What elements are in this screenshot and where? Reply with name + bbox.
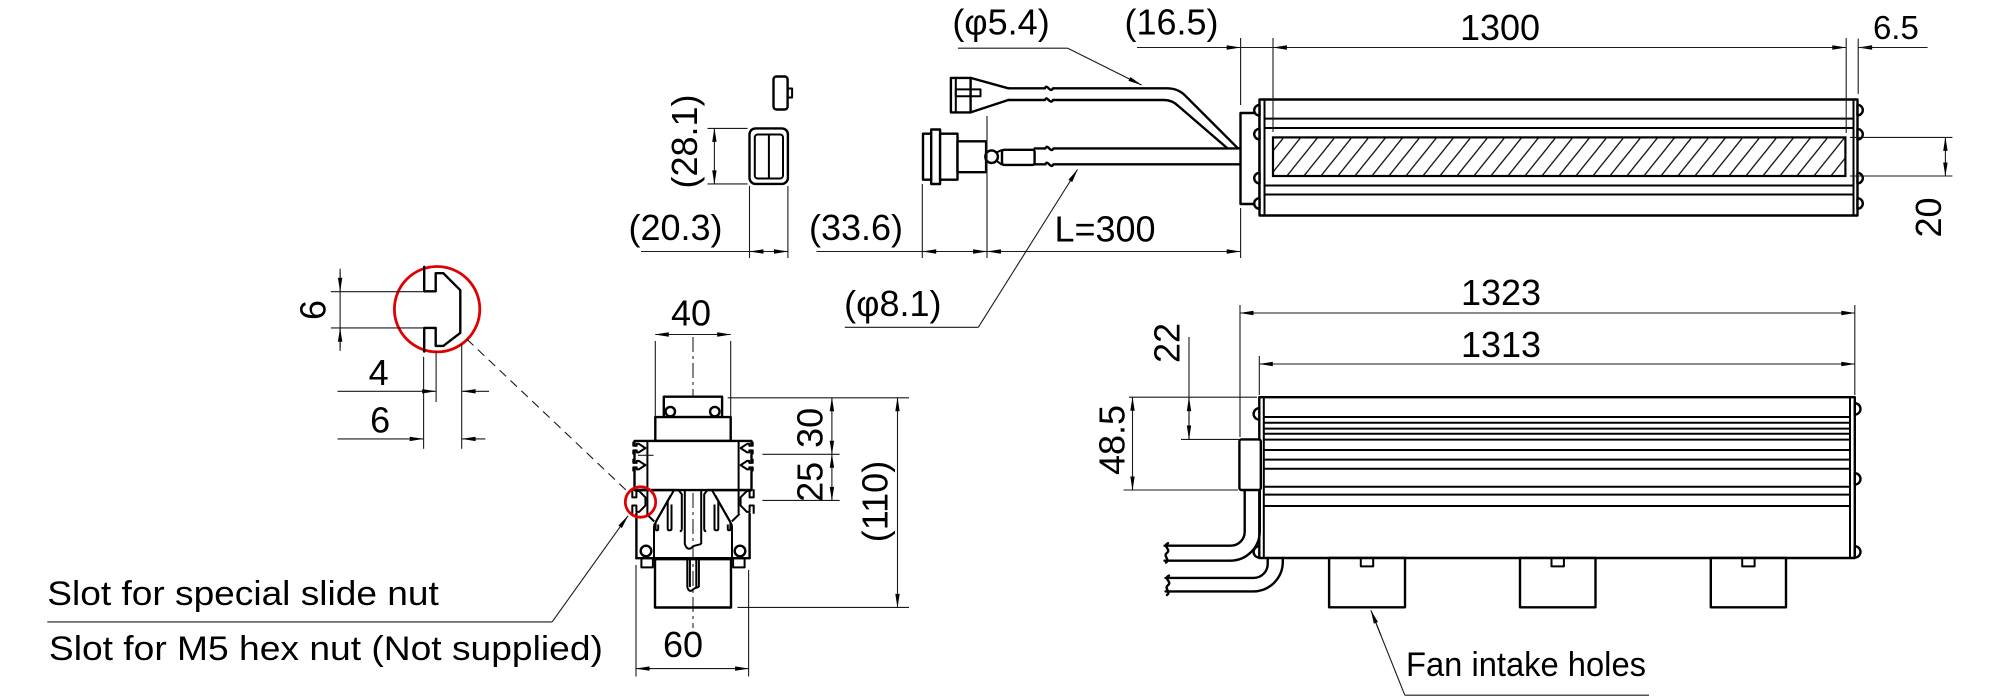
trunk bore left [684, 490, 686, 544]
LED emitting window (hatched) [1273, 137, 1845, 176]
svg-text:Slot for special slide nut: Slot for special slide nut [47, 575, 439, 613]
fin left outer [656, 523, 659, 531]
faston tongue [956, 89, 981, 96]
slot 2 right [741, 459, 753, 472]
bar internal line 1 [1265, 118, 1854, 120]
ext line x1273 [1272, 38, 1274, 132]
dim 28.1 ext top [708, 127, 748, 129]
flange wall left [635, 514, 637, 558]
block inner wall right [738, 441, 740, 514]
bar internal line 3 [1265, 185, 1854, 187]
bar internal line 4 [1265, 194, 1854, 196]
notch box1 [1361, 558, 1373, 566]
fan box 2 [1520, 558, 1596, 607]
top cap hole left [666, 407, 675, 416]
svg-text:(33.6): (33.6) [809, 207, 903, 248]
top cap rect [664, 397, 722, 417]
slot 3 right [741, 489, 754, 514]
upper cable bottom line [1008, 98, 1227, 148]
svg-text:6.5: 6.5 [1873, 9, 1919, 46]
duct stem wavy cap [687, 587, 699, 591]
hopper slope right outer [712, 491, 732, 526]
svg-text:40: 40 [671, 293, 711, 334]
dim 6 depth line [338, 438, 409, 440]
dim 22 ext bottom [1181, 438, 1239, 440]
svg-text:4: 4 [369, 352, 389, 393]
fan box 3 [1711, 558, 1786, 607]
svg-text:1300: 1300 [1460, 7, 1540, 48]
arrow 16.5 right [1222, 47, 1240, 49]
dim 25 ext [762, 499, 839, 501]
ext 1313 left [1258, 356, 1260, 395]
cable C1 outer [1165, 490, 1260, 561]
dim 60 line [636, 668, 749, 670]
svg-text:6: 6 [293, 300, 334, 320]
cone to ferrule [997, 150, 1002, 165]
ext right shared [1854, 305, 1856, 395]
dim 6.5 line [1859, 47, 1875, 49]
upper cable top line [1008, 87, 1240, 149]
fin right outer [728, 523, 731, 531]
dim 1313 line [1259, 363, 1855, 365]
notch box2 [1552, 558, 1564, 566]
svg-text:60: 60 [663, 624, 703, 665]
ext line x1846.2 [1845, 38, 1847, 133]
dim 30 ext [762, 453, 839, 455]
block bottom edge [635, 489, 752, 491]
cable C1 inner [1165, 490, 1245, 546]
connector mount block at bar left end [1241, 113, 1260, 204]
connector front divider [768, 135, 770, 179]
svg-text:(110): (110) [855, 461, 896, 542]
dim 6 mouth ext lines [331, 291, 424, 293]
bumps right edge [1855, 403, 1861, 557]
small tick line left [638, 454, 654, 456]
svg-text:(28.1): (28.1) [664, 94, 705, 188]
cable C1 end break [1166, 543, 1169, 562]
svg-text:22: 22 [1147, 323, 1188, 363]
slot 1 left [633, 442, 645, 455]
svg-text:30: 30 [790, 408, 831, 448]
dim 20 ext bottom [1850, 175, 1952, 177]
svg-text:1313: 1313 [1461, 324, 1541, 365]
flange chamfer right [732, 514, 740, 522]
duct stem lines [687, 559, 699, 587]
connector tip ball [985, 150, 998, 163]
slot 2 left [633, 459, 645, 472]
dim 110 line [897, 398, 899, 608]
circular connector barrel [958, 141, 987, 172]
connector front view outer [750, 128, 788, 184]
cable C2 end break [1167, 576, 1170, 595]
svg-text:Slot for M5 hex nut (Not suppl: Slot for M5 hex nut (Not supplied) [49, 630, 603, 668]
svg-text:(φ5.4): (φ5.4) [952, 2, 1049, 43]
dim 1323 line [1240, 312, 1855, 314]
ext line x1240.6 upper [1240, 38, 1242, 105]
arrow 1300 left [1273, 47, 1291, 49]
bar left end cap line [1264, 100, 1266, 216]
leader diagonal to red circle [552, 516, 628, 622]
dim line y251.5 shared [817, 251, 1241, 253]
svg-text:20: 20 [1908, 197, 1949, 237]
notch box3 [1742, 558, 1754, 566]
faston inner line [955, 78, 957, 113]
dim 25 line [831, 454, 833, 500]
wire ferrule [1002, 150, 1035, 165]
body (bottom view) [1259, 397, 1855, 558]
svg-text:(φ8.1): (φ8.1) [844, 283, 941, 324]
connector tab side view [774, 77, 788, 110]
svg-text:(20.3): (20.3) [628, 207, 722, 248]
trunk right chamfer and wall [704, 490, 707, 531]
svg-text:25: 25 [790, 462, 831, 502]
dim 28.1 line [713, 128, 715, 184]
dim 48.5 ext bottom [1124, 489, 1239, 491]
cable C2 top [1166, 558, 1268, 578]
hopper wall right [731, 525, 733, 558]
mount hole left [641, 546, 652, 557]
screw bumps left edge [1254, 105, 1259, 209]
detail ext verticals [423, 357, 425, 449]
connector block side [1239, 439, 1260, 490]
mount hole right [735, 546, 746, 557]
bottom edge [636, 557, 749, 559]
red circle on slot3 [625, 487, 655, 517]
flange wall right [748, 514, 750, 558]
foot right [733, 558, 745, 567]
dim 28.1 ext bottom [708, 183, 748, 185]
hopper slope right inner [715, 495, 730, 522]
dim 20 ext top [1850, 136, 1952, 138]
fin right inner [715, 502, 719, 531]
dim 20.3 line [641, 251, 788, 253]
svg-text:48.5: 48.5 [1092, 405, 1133, 475]
slot 3 left (special slide nut) [632, 489, 645, 514]
dim 22 line [1188, 337, 1190, 439]
faston terminal block (upper cable) [951, 78, 971, 113]
ext 1323 left [1239, 305, 1241, 437]
main block [635, 441, 752, 490]
mask slot mouths on block walls [633, 446, 636, 450]
dim 30 line [831, 398, 833, 455]
trunk bore wavy cap [685, 544, 701, 549]
faston taper bottom [971, 100, 1009, 112]
dim 22 ext top [1129, 396, 1257, 398]
svg-text:1323: 1323 [1461, 272, 1541, 313]
dim 110 ext top [728, 397, 909, 399]
dim (phi5.4) leader [958, 47, 1068, 49]
arrow 1300 right [1828, 47, 1846, 49]
phi8.1 leader underline [845, 326, 979, 328]
slot 1 right [741, 442, 753, 455]
center line [692, 337, 694, 628]
detail red circle [394, 267, 479, 352]
cable C2 bottom [1166, 558, 1283, 591]
bumps left edge [1254, 408, 1260, 557]
arrows 33.6 [923, 251, 938, 253]
dim 110 ext bottom [737, 606, 909, 608]
slot profile detail [424, 267, 460, 352]
ext x922.3 [921, 184, 923, 258]
fan duct front [655, 559, 731, 607]
ext x1240.6 lower [1240, 208, 1242, 258]
dim 4 line [338, 390, 421, 392]
trunk bore right [700, 490, 702, 544]
circular connector ring [931, 130, 940, 185]
leader underline 1 [47, 621, 552, 623]
hopper wall left [653, 525, 655, 558]
dim 40 ext lines [654, 341, 656, 416]
circular connector body [940, 134, 957, 180]
dim 60 ext lines [635, 565, 637, 677]
dim 48.5 line [1132, 397, 1134, 490]
block inner wall left [646, 441, 648, 514]
dim 20 line [1944, 137, 1946, 176]
arrows L300 [987, 251, 1003, 253]
light bar body (side view) [1260, 100, 1858, 216]
trunk left chamfer and wall [679, 490, 682, 531]
svg-text:(16.5): (16.5) [1124, 2, 1218, 43]
fan leader [1372, 613, 1405, 695]
step rect [655, 417, 730, 441]
bar right end cap line [1853, 100, 1855, 216]
bar internal line 2 [1265, 127, 1854, 129]
dim 40 line [655, 334, 730, 336]
dashed leader to end view [467, 339, 627, 491]
lower cable bottom line [1035, 163, 1241, 166]
svg-text:6: 6 [370, 400, 390, 441]
hopper slope left inner [656, 495, 671, 522]
flange chamfer left [646, 514, 654, 522]
ext x987 [986, 116, 988, 258]
connector front view inner [755, 135, 783, 179]
faston taper top [971, 78, 1009, 88]
left cap line [1263, 397, 1265, 558]
top cap hole right [710, 407, 719, 416]
svg-text:L=300: L=300 [1054, 209, 1155, 250]
heatsink fin lines [1264, 417, 1850, 506]
ext x749.5 [749, 186, 751, 258]
right cap line [1849, 397, 1851, 558]
fin left inner [668, 502, 672, 531]
phi8.1 leader diagonal [978, 170, 1077, 328]
hopper slope left outer [654, 491, 674, 526]
ext line x1858.2 [1857, 39, 1859, 94]
connector tab nub [788, 89, 793, 98]
fan box 1 [1329, 558, 1405, 607]
screw bumps right edge [1858, 105, 1863, 209]
circular connector rear cap [923, 134, 931, 180]
dim 6 mouth line and arrows [339, 269, 341, 351]
ext x787.9 [787, 186, 789, 258]
foot left [641, 558, 653, 567]
lower cable top line [1035, 147, 1241, 150]
svg-text:Fan intake holes: Fan intake holes [1406, 646, 1646, 684]
dim line y47.5 shared [1137, 47, 1846, 49]
